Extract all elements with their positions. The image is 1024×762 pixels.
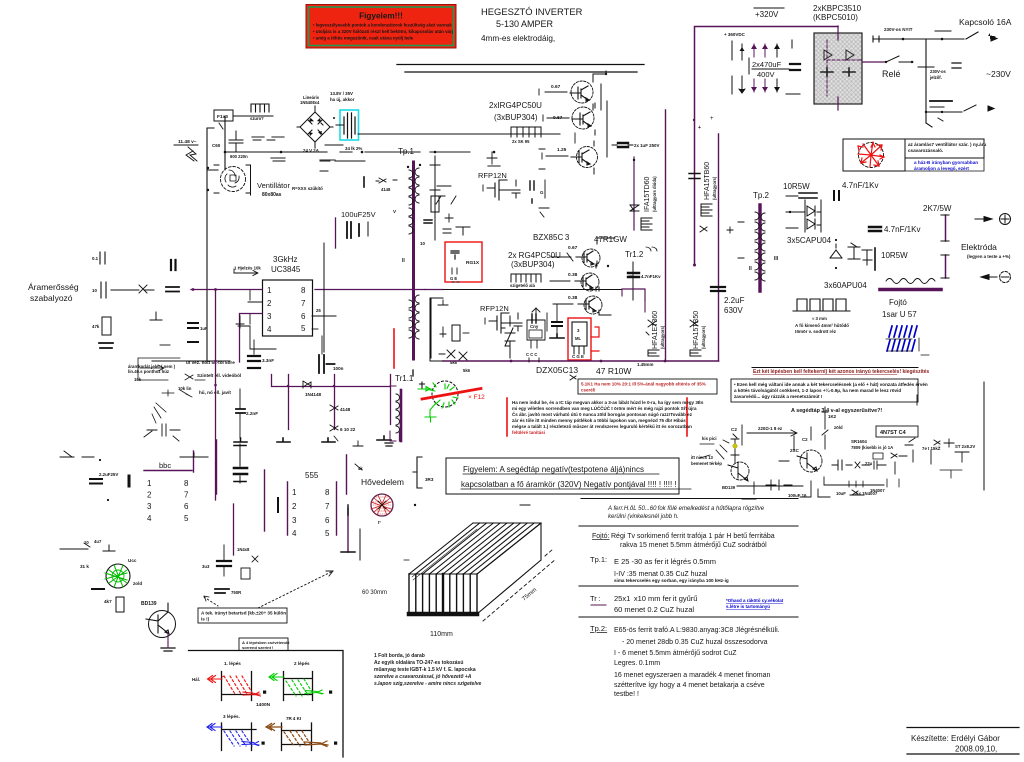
svg-text:6: 6 <box>184 502 189 511</box>
specs Tr.1 row <box>590 594 784 614</box>
svg-text:230V-os NYIT: 230V-os NYIT <box>884 27 913 32</box>
svg-text:(ultragyors): (ultragyors) <box>701 325 706 349</box>
svg-text:• legveszélyesebb pontok a kon: • legveszélyesebb pontok a kondenzátorok… <box>313 23 452 28</box>
svg-text:II: II <box>402 258 405 264</box>
svg-text:10: 10 <box>420 241 425 246</box>
svg-text:2: 2 <box>292 502 297 511</box>
svg-text:630V: 630V <box>724 306 743 315</box>
annotation kimenet tiny texts <box>128 358 241 441</box>
transformer Tp.1 core <box>402 162 425 359</box>
svg-text:Hál.: Hál. <box>192 677 200 682</box>
svg-text:is !): is !) <box>201 617 210 622</box>
red strike line F12 <box>422 389 481 400</box>
mosfet RFP12N10 (lower) <box>480 304 547 333</box>
svg-text:Ezt két lépésben kell felteker: Ezt két lépésben kell feltekerni) két az… <box>753 369 929 375</box>
svg-text:47k: 47k <box>92 324 100 329</box>
capacitor 4.7nF/1Kv (top) <box>834 181 878 200</box>
svg-text:0.1: 0.1 <box>92 256 99 261</box>
svg-text:Tp.2: Tp.2 <box>753 191 770 200</box>
svg-text:230V-os: 230V-os <box>930 69 947 74</box>
svg-text:• utoljára is a 320V hálózati: • utoljára is a 320V hálózati részt kell… <box>313 29 453 34</box>
svg-text:Relé: Relé <box>882 69 901 79</box>
trigger small parts <box>330 405 356 441</box>
svg-text:60 30mm: 60 30mm <box>362 590 387 596</box>
svg-text:2.2uF: 2.2uF <box>724 296 745 305</box>
driver misc lower-left <box>431 298 469 365</box>
resistor 2K7/5W <box>923 204 952 278</box>
svg-text:(legyen a teste a +%): (legyen a teste a +%) <box>967 254 1011 259</box>
svg-text:2008.09,10,: 2008.09,10, <box>955 745 997 754</box>
wire trigger net purple <box>272 375 391 430</box>
svg-text:10k lin: 10k lin <box>178 386 192 391</box>
svg-text:Cny: Cny <box>530 324 539 329</box>
svg-text:4k7: 4k7 <box>104 599 112 604</box>
svg-text:1 Folt borda, jó darab: 1 Folt borda, jó darab <box>374 653 425 659</box>
winding step2 (green) <box>269 661 332 701</box>
svg-text:80x80as: 80x80as <box>262 192 282 198</box>
svg-text:10R5W: 10R5W <box>881 251 908 260</box>
specs Tp.2 row <box>590 624 780 698</box>
svg-text:lin.40.s ponthoz húz: lin.40.s ponthoz húz <box>128 369 169 374</box>
aux transistor T2 <box>800 450 822 472</box>
capacitor 100uF25V <box>341 210 376 238</box>
svg-text:sima tekercselés egy sorban, e: sima tekercselés egy sorban, egy irányba… <box>614 578 729 583</box>
winding step3 (blue) <box>207 714 265 751</box>
thermal sensor red circle <box>360 494 393 560</box>
svg-text:RG1X: RG1X <box>466 260 480 266</box>
zener pair mid <box>501 316 515 358</box>
svg-text:áramoljon a levegő, ezért: áramoljon a levegő, ezért <box>914 166 969 171</box>
svg-text:mégse a talált 1.) részletező: mégse a talált 1.) részletező műszer át … <box>512 424 692 429</box>
svg-text:szuro?: szuro? <box>250 116 264 121</box>
svg-text:szerelve a csavarozással, jó: szerelve a csavarozással, jó hővezető +A <box>374 674 472 680</box>
svg-text:11.48 v~: 11.48 v~ <box>178 139 197 145</box>
svg-text:BD139: BD139 <box>141 601 157 607</box>
fuse F1 <box>212 110 245 148</box>
svg-text:(ultragyors): (ultragyors) <box>660 325 665 349</box>
svg-text:Figyelem!!!: Figyelem!!! <box>359 12 403 21</box>
wire input bus <box>224 116 500 171</box>
capacitor bank 2x470uF 400V <box>724 32 800 94</box>
svg-text:IFA15TD60: IFA15TD60 <box>644 176 651 212</box>
svg-text:G: G <box>540 190 544 195</box>
title HEGESZTO INVERTER <box>481 6 583 43</box>
svg-text:10: 10 <box>84 540 89 545</box>
svg-text:1N4148: 1N4148 <box>305 392 322 397</box>
transformer Tr1.1 <box>385 374 576 446</box>
svg-text:• Ezen kell még váltani ide a: • Ezen kell még váltani ide annak a két … <box>734 382 928 387</box>
svg-text:C60: C60 <box>212 143 221 148</box>
bracket symbol <box>413 457 434 506</box>
svg-text:~230V: ~230V <box>986 69 1011 79</box>
svg-text:zár és tőle itt minden menny: zár és tőle itt minden menny pótlékok a … <box>512 418 686 423</box>
svg-text:25: 25 <box>316 308 321 313</box>
wire purple rail x665 <box>665 110 667 361</box>
svg-text:testbe! !: testbe! ! <box>614 691 639 698</box>
svg-text:Fojtó:: Fojtó: <box>592 533 610 540</box>
svg-text:1400N: 1400N <box>256 702 271 708</box>
svg-text:5.1K1 Ha nem 10% 20:1 ill 5%: 5.1K1 Ha nem 10% 20:1 ill 5%-ánál nagyob… <box>581 382 706 387</box>
svg-text:1: 1 <box>267 286 272 295</box>
svg-text:Elektróda: Elektróda <box>961 242 997 252</box>
svg-text:s.létre is tartományú: s.létre is tartományú <box>726 604 770 609</box>
winding step1 (red) <box>192 661 271 708</box>
svg-text:F1x3: F1x3 <box>217 114 228 120</box>
svg-text:1: 1 <box>292 488 297 497</box>
diode HFA1ET360 (x655) <box>646 311 665 356</box>
svg-text:BD139: BD139 <box>722 485 736 490</box>
aux transistor T1 <box>731 462 749 480</box>
svg-text:bemenet térkép: bemenet térkép <box>691 461 722 466</box>
capacitor near relay <box>952 63 961 68</box>
svg-text:6 10 22: 6 10 22 <box>340 427 356 432</box>
diode HFA15TB60 (x707) <box>693 119 733 233</box>
label Aramerosseg szabalyozo <box>28 282 79 303</box>
svg-text:Hővedelem: Hővedelem <box>361 477 404 487</box>
note box Figyelem segedtap <box>446 458 691 494</box>
red line strike (vertical, near Tr1.1 top) <box>393 329 395 368</box>
svg-text:4k: 4k <box>358 466 363 471</box>
svg-text:sorrend szerint !: sorrend szerint ! <box>242 645 273 650</box>
fan airflow box (red fan) <box>843 139 905 171</box>
svg-text:+320V: +320V <box>755 10 779 19</box>
fan note box <box>905 139 986 171</box>
svg-text:Ha nem indul be, és a IC táp: Ha nem indul be, és a IC táp megvan akko… <box>512 398 704 405</box>
svg-text:HFA15TB50: HFA15TB50 <box>693 311 700 349</box>
svg-text:G E: G E <box>450 276 457 281</box>
svg-text:+: + <box>698 125 701 131</box>
svg-text:3u3: 3u3 <box>202 564 210 569</box>
purple rails around 555 <box>217 432 400 552</box>
transformer Tr1.2 winding <box>629 247 657 276</box>
svg-text:2.2nF: 2.2nF <box>246 411 258 416</box>
svg-text:6: 6 <box>301 312 306 321</box>
wire collector bus <box>601 71 607 157</box>
wire purple link Tr1.2 <box>622 289 645 300</box>
capacitor C (left column 1) <box>92 252 105 264</box>
specs intro italic <box>607 506 765 520</box>
capacitor C (left column 2) <box>92 282 154 298</box>
svg-text:400V: 400V <box>757 70 775 79</box>
wire +320V bus (purple) <box>695 27 839 266</box>
bridge rectifier KBPC block <box>814 26 862 110</box>
specs Tp.1 row <box>590 555 729 583</box>
svg-text:25x1 x10 mm fer it gyűrű: 25x1 x10 mm fer it gyűrű <box>614 594 697 603</box>
resistor (left column) <box>92 317 113 348</box>
wire bottom purple bus <box>430 298 719 373</box>
svg-text:2 lépés: 2 lépés <box>294 661 310 666</box>
svg-text:0.67: 0.67 <box>551 84 561 90</box>
svg-text:V: V <box>393 209 397 214</box>
purple wire Tr1.2 to bus <box>622 289 645 312</box>
svg-text:tömör v. sodrott réz: tömör v. sodrott réz <box>795 329 837 334</box>
svg-text:ha új, akkor: ha új, akkor <box>330 97 355 102</box>
red box TO-220 <box>568 318 599 360</box>
svg-text:3: 3 <box>147 502 152 511</box>
wire purple x335 <box>335 218 337 248</box>
svg-text:4.7nF/1Kv: 4.7nF/1Kv <box>842 181 878 190</box>
svg-text:A segédtáp 3-4 v-al egyszer: A segédtáp 3-4 v-al egyszerűsítve?! <box>791 408 882 414</box>
red-barred paragraph note <box>507 398 704 436</box>
svg-text:Legres. 0.1mm: Legres. 0.1mm <box>614 660 660 667</box>
svg-text:HFA15TB60: HFA15TB60 <box>704 162 711 200</box>
svg-text:4148: 4148 <box>340 407 351 412</box>
resistor 10R5W (output) <box>875 248 908 270</box>
bridge rectifier diamond <box>297 91 355 153</box>
aux caps right <box>832 460 852 470</box>
svg-text:1. lépés: 1. lépés <box>224 661 241 666</box>
transistor Q5 <box>550 264 609 291</box>
mosfet RFP12N10 (upper) <box>478 171 549 217</box>
svg-text:3x5CAPU04: 3x5CAPU04 <box>787 236 832 245</box>
svg-text:Ventillátor: Ventillátor <box>257 181 290 190</box>
capacitor under IC right <box>319 336 344 373</box>
svg-text:2: 2 <box>147 491 152 500</box>
capacitor X2 <box>229 131 275 159</box>
heatsink 3D drawing <box>409 523 556 621</box>
ground symbols trigger row <box>234 334 564 442</box>
svg-text:I-IV :35 menat 0.35 CuZ huzal: I-IV :35 menat 0.35 CuZ huzal <box>614 571 708 578</box>
svg-text:1uF: 1uF <box>200 326 208 331</box>
opto box mid <box>526 308 545 362</box>
note red underlined (Ezt) <box>752 368 929 376</box>
connector comb (upper) <box>511 127 541 144</box>
svg-text:RFP12N: RFP12N <box>480 304 509 313</box>
svg-text:rakva 15 menet 5.5mm átmérő: rakva 15 menet 5.5mm átmérőjű CuZ sodrát… <box>620 542 767 549</box>
svg-text:II: II <box>749 266 752 272</box>
svg-text:• amíg a töltés megszűnik, csa: • amíg a töltés megszűnik, csak utána ny… <box>313 36 414 41</box>
svg-text:Ucc: Ucc <box>128 558 137 563</box>
svg-text:47 R10W: 47 R10W <box>596 366 631 376</box>
svg-text:*Ohasd a rákötő cy.vékolat: *Ohasd a rákötő cy.vékolat <box>726 598 784 603</box>
svg-text:bbc: bbc <box>159 461 171 470</box>
svg-text:műanyag teste IGBT‑k 1.5 kV: műanyag teste IGBT‑k 1.5 kV f. E. lapocs… <box>374 667 476 673</box>
svg-text:C2: C2 <box>802 437 808 442</box>
relay contact wiring top <box>873 27 997 42</box>
svg-text:13.8V / 35V: 13.8V / 35V <box>330 91 353 96</box>
svg-text:34 lk 2%: 34 lk 2% <box>345 146 362 151</box>
svg-text:jelzőf.: jelzőf. <box>929 75 942 80</box>
green scribble transformer sketch <box>413 370 485 422</box>
wire feedback arrow to UC3845 <box>234 266 261 276</box>
svg-text:1N5408x4: 1N5408x4 <box>300 100 320 105</box>
svg-text:ST 2x8.2V: ST 2x8.2V <box>955 444 975 449</box>
inductor wavy output <box>886 279 935 284</box>
svg-text:Készítette: Erdélyi Gábor: Készítette: Erdélyi Gábor <box>911 734 1000 743</box>
svg-text:10: 10 <box>92 288 97 293</box>
svg-text:5: 5 <box>184 514 189 523</box>
aux supply sketch <box>691 382 984 499</box>
svg-text:10uF: 10uF <box>836 491 846 496</box>
capacitor big at x240 <box>239 444 241 483</box>
svg-text:1sar U 57: 1sar U 57 <box>882 310 917 319</box>
heatsink dimension labels <box>362 560 538 638</box>
svg-text:+: + <box>710 116 714 122</box>
svg-text:4148: 4148 <box>381 187 391 192</box>
svg-text:4: 4 <box>292 529 297 538</box>
capacitor stack under 555 left <box>202 545 258 595</box>
svg-text:(KBPC5010): (KBPC5010) <box>813 13 858 22</box>
svg-text:+ 360VDC: + 360VDC <box>724 32 746 37</box>
svg-text:220Ω-1 8 ez: 220Ω-1 8 ez <box>758 426 783 431</box>
node 11.48V <box>174 139 198 161</box>
svg-text:cserél!: cserél! <box>581 388 596 393</box>
svg-text:- 20 menet 28db 0.35 CuZ: - 20 menet 28db 0.35 CuZ huzal összesodo… <box>622 639 768 646</box>
svg-text:7: 7 <box>325 502 330 511</box>
svg-text:Fojtó: Fojtó <box>889 298 907 307</box>
svg-text:az áramlás7 ventillátor szár.: az áramlás7 ventillátor szár. ) ny.áru <box>908 142 986 147</box>
transistor Q2 <box>543 103 595 135</box>
wire gate bus <box>425 289 443 291</box>
specs column rules <box>579 499 798 618</box>
transformer Tp.2 core <box>738 205 779 291</box>
svg-text:≈ 3 mm: ≈ 3 mm <box>812 316 827 321</box>
svg-text:Az egyik oldalára TO‑247‑es to: Az egyik oldalára TO‑247‑es tokozású <box>374 660 463 666</box>
svg-text:2SC: 2SC <box>790 448 800 453</box>
svg-text:a kötés távolságától csökkent,: a kötés távolságától csökkent, 1-2 lapos… <box>734 387 901 393</box>
svg-text:DZX05C13: DZX05C13 <box>536 365 578 375</box>
svg-text:C2: C2 <box>731 427 737 432</box>
connector comb (lower) <box>510 274 541 288</box>
svg-text:Tr1.2: Tr1.2 <box>625 250 644 259</box>
svg-text:1: 1 <box>147 479 152 488</box>
svg-text:10R5W: 10R5W <box>783 182 810 191</box>
terminal plus electrode <box>975 214 1011 225</box>
svg-text:4N7ST C4: 4N7ST C4 <box>880 430 907 436</box>
svg-text:2x RG4PC50U: 2x RG4PC50U <box>508 251 561 260</box>
svg-text:mi egy véletlen sorrendben van: mi egy véletlen sorrendben van meg LÚČČÚ… <box>512 405 697 411</box>
neon lamp 230V <box>918 67 947 80</box>
svg-text:(ultragyors dióda): (ultragyors dióda) <box>652 176 657 212</box>
svg-text:a ház-B irányban gyorsabban: a ház-B irányban gyorsabban <box>914 160 978 165</box>
specs Fojto row <box>592 533 775 549</box>
resistor 10R5W (top) <box>783 182 817 198</box>
transistor Q6 <box>553 287 611 315</box>
svg-text:Tp.2:: Tp.2: <box>590 624 607 633</box>
wire purple rail x718 <box>718 134 720 361</box>
svg-text:4.7nF1Kv: 4.7nF1Kv <box>641 274 661 279</box>
svg-text:1N4x8: 1N4x8 <box>237 547 250 552</box>
svg-text:× F12: × F12 <box>468 394 485 401</box>
svg-text:7: 7 <box>184 491 189 500</box>
transformer (cyan box) <box>336 110 560 140</box>
svg-text:1.45mm: 1.45mm <box>637 362 653 367</box>
svg-text:22u: 22u <box>865 461 873 466</box>
capacitor 4.7nF1Kv (Tr1.2) <box>628 262 661 300</box>
svg-text:HFA1ET360: HFA1ET360 <box>652 311 659 349</box>
svg-text:3R3: 3R3 <box>425 477 434 482</box>
label 2x RG4PC50U lower <box>508 251 561 269</box>
svg-text:5-130 AMPER: 5-130 AMPER <box>496 19 554 29</box>
diode HFA15TB50 (x697) <box>690 311 706 356</box>
svg-text:3.3nF: 3.3nF <box>262 358 274 363</box>
diode 4148 small <box>376 178 397 183</box>
blue hatch winding mark <box>886 326 929 355</box>
freewheel diode row <box>830 239 872 269</box>
capacitor snubber 2x <box>612 143 659 148</box>
diode 1N4148 <box>303 381 322 397</box>
svg-text:Tr :: Tr : <box>590 594 600 603</box>
note box red warning small <box>578 379 717 394</box>
transistor BD139 <box>141 601 176 651</box>
terminal minus <box>981 272 1011 283</box>
capacitor 3.3nF under IC <box>248 340 274 368</box>
svg-text:8: 8 <box>184 479 189 488</box>
small parts left of bbc <box>60 451 129 549</box>
svg-text:47R1GW: 47R1GW <box>594 235 627 244</box>
svg-text:3x60APU04: 3x60APU04 <box>824 281 867 290</box>
svg-text:2x SK 95: 2x SK 95 <box>512 139 530 144</box>
svg-text:(3xBUP304): (3xBUP304) <box>494 113 538 122</box>
svg-text:kis pici: kis pici <box>702 436 717 441</box>
winding square symbol <box>793 299 850 334</box>
svg-text:(ultragyors): (ultragyors) <box>712 176 717 200</box>
svg-text:A tek. irányt betartsd (kb.±20: A tek. irányt betartsd (kb.±20÷ 35 külön <box>201 611 286 616</box>
fan Ventillator <box>207 165 323 198</box>
svg-text:2x 1uF 250V: 2x 1uF 250V <box>634 143 659 148</box>
svg-text:C C C: C C C <box>526 352 537 357</box>
svg-text:(3xBUP304): (3xBUP304) <box>511 260 555 269</box>
svg-text:5: 5 <box>301 324 306 333</box>
svg-text:4: 4 <box>267 325 272 334</box>
svg-text:555: 555 <box>305 471 319 480</box>
svg-text:3 lépés.: 3 lépés. <box>223 714 240 719</box>
svg-text:60 menet 0.2 CuZ huzal: 60 menet 0.2 CuZ huzal <box>614 605 694 614</box>
label Elektroda <box>961 242 1011 259</box>
choke Fojto bar <box>880 290 941 320</box>
svg-text:8: 8 <box>325 488 330 497</box>
svg-text:5k6: 5k6 <box>463 368 471 373</box>
svg-text:HEGESZTÓ INVERTER: HEGESZTÓ INVERTER <box>481 6 583 17</box>
svg-text:110mm: 110mm <box>430 631 453 638</box>
svg-text:R=XXX szűkítő: R=XXX szűkítő <box>292 186 323 191</box>
svg-text:zold: zold <box>133 581 142 586</box>
svg-text:2xKBPC3510: 2xKBPC3510 <box>813 4 862 13</box>
svg-text:ML: ML <box>575 336 581 341</box>
svg-text:4: 4 <box>147 514 152 523</box>
svg-text:III: III <box>774 256 779 262</box>
transistor Q4 <box>551 238 615 267</box>
svg-text:2K7/5W: 2K7/5W <box>923 204 952 213</box>
svg-text:A ferr.H.őL 50...60 fok fölé: A ferr.H.őL 50...60 fok fölé emelkedést … <box>607 506 765 512</box>
diode HFA15TB60 (x647) <box>630 157 657 230</box>
svg-text:C G E: C G E <box>572 354 584 359</box>
winding steps enclosure <box>189 638 344 757</box>
svg-text:szabalyozó: szabalyozó <box>30 293 73 303</box>
svg-text:100n: 100n <box>333 366 344 371</box>
svg-text:I - 6 menet 5.5mm átmérőjű: I - 6 menet 5.5mm átmérőjű sodrot CuZ <box>614 650 737 657</box>
svg-text:31 k: 31 k <box>80 564 89 569</box>
transistor Q3 <box>539 133 598 174</box>
title block Keszitette <box>907 728 1019 755</box>
svg-text:Kapcsoló 16A: Kapcsoló 16A <box>959 17 1012 27</box>
svg-text:0.38: 0.38 <box>568 272 578 278</box>
svg-text:3: 3 <box>292 516 297 525</box>
svg-text:szétterítve így hogy a 4: szétterítve így hogy a 4 menet betakarja… <box>614 682 765 689</box>
svg-text:600 220n: 600 220n <box>230 154 248 159</box>
svg-text:Čs ábr. javító most várható ú: Čs ábr. javító most várható útú 0 nunca … <box>512 411 693 417</box>
aux wires <box>742 425 811 499</box>
svg-text:3GkHz: 3GkHz <box>273 255 297 264</box>
svg-text:4u7: 4u7 <box>94 539 102 544</box>
note box hegeszteskor <box>731 379 928 402</box>
svg-text:Figyelem: A segédtáp negatív(t: Figyelem: A segédtáp negatív(testpotenə … <box>463 465 644 474</box>
svg-text:3: 3 <box>577 328 580 333</box>
capacitor pair right of IC <box>552 305 562 337</box>
svg-text:felüléré tanítási: felüléré tanítási <box>512 430 545 435</box>
red box driver module upper <box>445 242 482 282</box>
svg-text:7R 4 KI: 7R 4 KI <box>286 716 301 721</box>
